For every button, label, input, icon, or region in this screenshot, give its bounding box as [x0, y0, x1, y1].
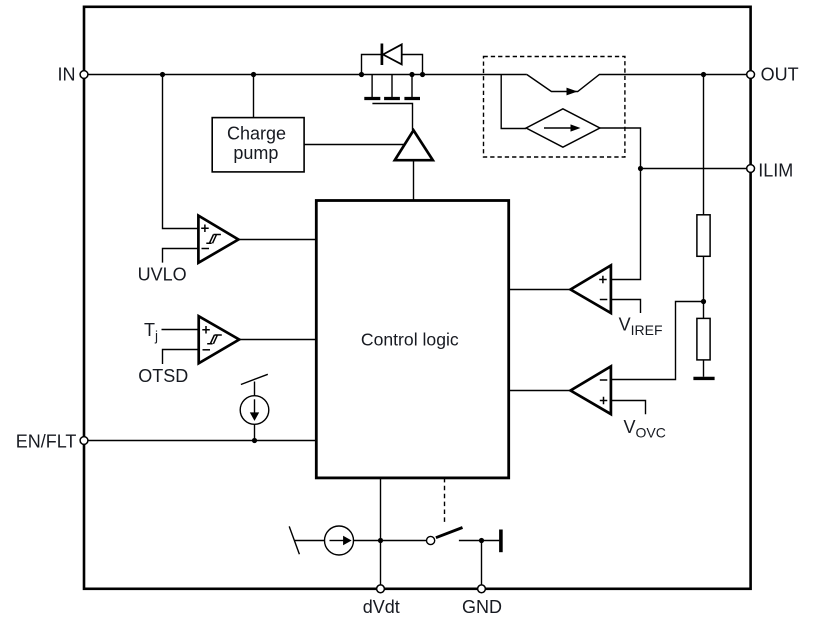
wire EN/FLT: [84, 440, 316, 442]
junction GND node: [479, 538, 484, 543]
wire U2 output to control logic: [238, 239, 316, 241]
wire slash to current source I2: [295, 540, 325, 542]
U5 hysteresis glyph: [207, 335, 222, 344]
diode D1 triangle: [383, 44, 402, 64]
svg-text:Charge: Charge: [227, 124, 286, 144]
wire IN to UVLO + input: [163, 75, 199, 229]
wire OTSD - input stub: [163, 350, 199, 365]
svg-text:VIREF: VIREF: [619, 315, 663, 339]
U5 plus sign: [202, 326, 210, 334]
current source I1 arrowhead: [250, 412, 259, 421]
wire Tj input: [162, 329, 199, 331]
MOSFET Q1 gate line: [372, 104, 412, 131]
wire ILIM: [641, 168, 751, 170]
svg-text:OUT: OUT: [761, 64, 799, 84]
current sense diamond: [526, 109, 600, 147]
ground: [693, 377, 714, 380]
arrow inside diamond: [544, 127, 571, 129]
svg-text:pump: pump: [233, 143, 278, 163]
current source I2 arrow: [330, 540, 344, 542]
wire gate driver to control logic: [413, 160, 415, 200]
current source I2 circle: [325, 526, 354, 555]
svg-text:dVdt: dVdt: [363, 597, 400, 617]
wire switch to terminal bar: [459, 540, 499, 542]
junction on OUT rail (divider tap): [701, 72, 706, 77]
wire sense dip (main FET current path): [527, 75, 751, 92]
junction dVdt node: [378, 538, 383, 543]
pin GND: [478, 585, 486, 593]
current source I2 arrowhead: [343, 536, 352, 545]
MOSFET Q1 channel bars: [364, 97, 420, 100]
svg-text:ILIM: ILIM: [758, 161, 793, 181]
junction divider midpoint: [701, 299, 706, 304]
junction on IN rail (UVLO tap): [160, 72, 165, 77]
wire VIREF - input stub: [611, 300, 641, 314]
pin OUT: [747, 71, 755, 79]
wire divider tap to VOVC comparator - input: [611, 302, 704, 380]
wire I2 to dVdt node: [354, 540, 427, 542]
wire IN to charge pump: [253, 75, 255, 118]
svg-text:OTSD: OTSD: [138, 366, 188, 386]
switch terminal bar: [499, 530, 503, 553]
gate driver buffer: [395, 130, 433, 160]
junction on IN rail (FET right stub): [409, 72, 414, 77]
wire above current source I1: [254, 382, 256, 396]
wire OUT sense divider: [703, 75, 705, 215]
wire VOVC + input stub: [611, 401, 646, 415]
wire control logic to dVdt: [380, 478, 382, 589]
current source I1 switch slash: [241, 374, 268, 384]
junction on IN rail (diode right): [420, 72, 425, 77]
junction ILIM node: [638, 166, 643, 171]
pin ILIM: [747, 165, 755, 173]
svg-text:VOVC: VOVC: [624, 417, 666, 441]
wire charge pump output to gate driver: [304, 144, 405, 146]
wire R2 to ground: [703, 360, 705, 377]
wire U3 output to control logic: [509, 289, 571, 291]
control logic box: [316, 201, 508, 478]
U3 plus sign: [599, 276, 607, 284]
MOSFET Q1 source/drain stubs: [372, 75, 412, 98]
wire sense branch to current mirror: [501, 75, 526, 129]
pin EN/FLT: [80, 437, 88, 445]
resistor R1: [697, 215, 710, 256]
wire UVLO - input stub: [163, 249, 199, 263]
diode D1 cathode bar: [381, 44, 384, 66]
pin dVdt: [377, 585, 385, 593]
arrowhead on sense path: [567, 88, 578, 96]
current source I1 circle: [240, 396, 269, 425]
pin IN: [80, 71, 88, 79]
comparator U5 (thermal shutdown): [199, 316, 240, 363]
wire I1 to EN/FLT line: [254, 424, 256, 440]
junction on IN rail (diode left): [359, 72, 364, 77]
junction EN/FLT node: [252, 438, 257, 443]
wire U4 output to control logic: [509, 390, 571, 392]
dashed wire control logic to discharge switch: [444, 478, 446, 524]
svg-text:UVLO: UVLO: [138, 264, 187, 284]
U4 minus sign: [600, 379, 608, 381]
comparator U4 (over-voltage clamp): [571, 366, 611, 414]
U4 plus sign: [600, 397, 608, 405]
U2 hysteresis glyph: [206, 235, 221, 244]
wire ILIM node to VIREF comparator + input: [611, 169, 641, 280]
comparator U3 (current limit): [571, 265, 611, 313]
discharge switch pivot circle: [427, 536, 435, 544]
junction on IN rail (charge pump tap): [251, 72, 256, 77]
wire to GND pin: [481, 541, 483, 589]
comparator U2 (UVLO): [198, 216, 238, 263]
svg-text:IN: IN: [58, 64, 76, 84]
U2 plus sign: [201, 225, 209, 233]
arrowhead inside diamond: [571, 124, 581, 131]
wire between resistors: [703, 256, 705, 318]
svg-text:Control logic: Control logic: [361, 329, 459, 349]
IC boundary: [84, 7, 751, 589]
current source I2 input slash: [289, 526, 299, 554]
U2 minus sign: [202, 248, 210, 250]
body diode wires: [362, 55, 423, 75]
resistor R2: [697, 318, 710, 360]
svg-text:Tj: Tj: [144, 320, 158, 344]
current source I1 arrow: [254, 399, 256, 413]
wire diamond to ILIM node: [600, 128, 641, 169]
charge pump box: [212, 118, 304, 172]
wire U5 output to control logic: [239, 339, 316, 341]
svg-text:GND: GND: [462, 597, 502, 617]
discharge switch blade: [436, 528, 463, 538]
dashed current-sense box: [484, 57, 625, 158]
U5 minus sign: [203, 349, 211, 351]
U3 minus sign: [600, 299, 608, 301]
wire IN rail: [84, 74, 527, 76]
svg-text:EN/FLT: EN/FLT: [16, 431, 77, 451]
